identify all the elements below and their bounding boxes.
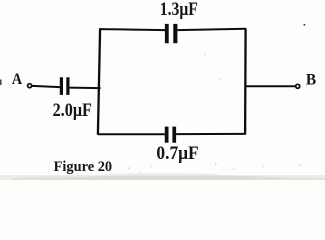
wire C2 to left junction xyxy=(70,87,101,90)
svg-text:1.3μF: 1.3μF xyxy=(160,0,198,20)
scan smudge bottom band xyxy=(0,175,325,180)
wire top branch left xyxy=(99,29,165,30)
svg-text:B: B xyxy=(306,71,317,88)
wire right side to B xyxy=(245,85,295,87)
wire bottom branch left xyxy=(98,133,165,135)
svg-text:2.0μF: 2.0μF xyxy=(53,100,92,121)
wire top branch right xyxy=(177,29,246,30)
capacitor C2 2.0uF plates xyxy=(60,77,70,95)
wire left riser (rect left side) xyxy=(98,28,100,135)
capacitor C1 1.3uF plates xyxy=(165,24,178,43)
wire right side (rect right side) xyxy=(244,29,247,135)
terminal B xyxy=(296,84,300,88)
wire bottom branch right xyxy=(176,133,245,135)
svg-text:A: A xyxy=(12,69,23,88)
scan mark left edge xyxy=(0,80,2,86)
svg-text:0.7μF: 0.7μF xyxy=(156,143,198,164)
capacitor C3 0.7uF plates xyxy=(165,127,176,143)
terminal A xyxy=(28,84,32,88)
faint scan specks xyxy=(128,54,301,173)
svg-text:Figure 20: Figure 20 xyxy=(54,159,113,175)
wire A to C2 xyxy=(32,86,60,87)
scan speck top right xyxy=(304,24,306,26)
